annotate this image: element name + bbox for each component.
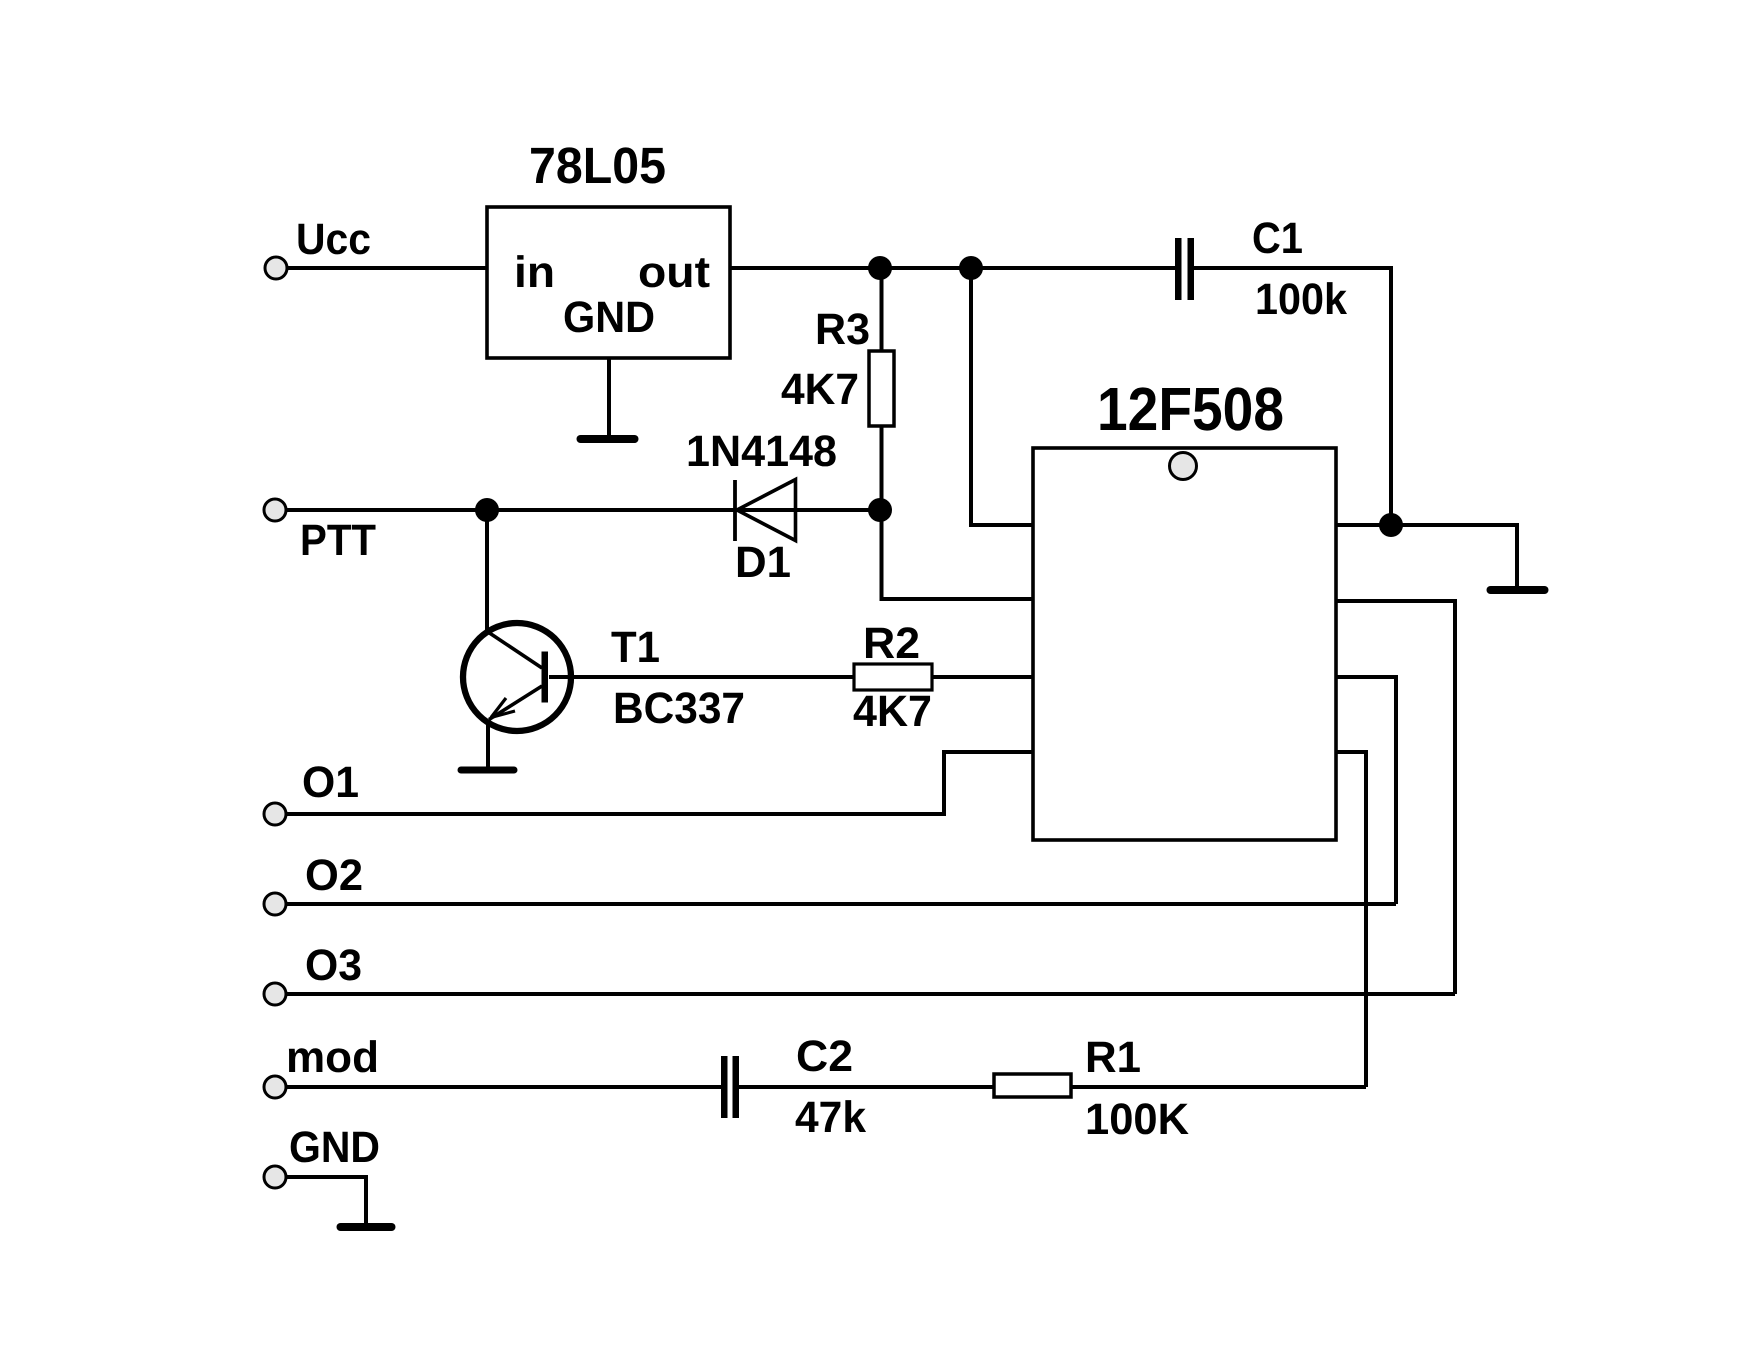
- svg-text:O2: O2: [305, 851, 363, 900]
- transistor T1 circle: [463, 623, 571, 731]
- svg-text:BC337: BC337: [613, 684, 745, 733]
- svg-text:C2: C2: [796, 1032, 853, 1081]
- terminal O1: [264, 803, 286, 825]
- wire PTT to diode junction: [287, 508, 880, 512]
- ground under regulator: [581, 435, 635, 443]
- wire R1 to IC riser: [1071, 1085, 1366, 1089]
- svg-text:1N4148: 1N4148: [686, 427, 837, 476]
- capacitor C2: [721, 1056, 728, 1118]
- wire IC right pin to O3 line: [1336, 601, 1455, 994]
- terminal O3: [264, 983, 286, 1005]
- wire mod to C2: [285, 1085, 721, 1089]
- svg-text:100K: 100K: [1085, 1095, 1189, 1144]
- diode D1 triangle: [737, 480, 796, 541]
- svg-text:R2: R2: [863, 619, 920, 668]
- diode D1 cathode bar: [733, 480, 737, 541]
- resistor R1: [994, 1074, 1071, 1097]
- ground at GND terminal: [341, 1223, 392, 1231]
- transistor T1 emitter arrow barb lower: [491, 711, 515, 718]
- terminal O2: [264, 893, 286, 915]
- wire IC right pin to O2 line: [1336, 677, 1396, 904]
- wire base to R2: [549, 675, 854, 679]
- svg-text:R3: R3: [815, 305, 870, 354]
- svg-text:Ucc: Ucc: [296, 215, 371, 264]
- wire R3 top: [880, 268, 884, 351]
- wire regulator out to C1: [730, 266, 1175, 270]
- transistor T1 emitter arrow barb upper: [491, 698, 506, 718]
- terminal GND: [264, 1166, 286, 1188]
- wire Ucc to regulator in: [288, 266, 487, 270]
- node junction C1 return: [1379, 513, 1403, 537]
- regulator U1 78L05 box: [487, 207, 730, 358]
- wire IC Vss right to ground: [1336, 525, 1517, 586]
- svg-text:4K7: 4K7: [781, 365, 859, 414]
- wire C2 to R1: [739, 1085, 994, 1089]
- wire IC right pin to R1 line: [1336, 752, 1366, 1087]
- wire PTT junction down to transistor collector: [485, 510, 489, 630]
- resistor R3: [869, 351, 894, 426]
- svg-text:12F508: 12F508: [1097, 375, 1284, 443]
- wire O3: [285, 992, 1455, 996]
- svg-text:O3: O3: [305, 941, 362, 990]
- wire GND to ground: [286, 1177, 366, 1224]
- svg-text:47k: 47k: [795, 1093, 867, 1142]
- transistor T1 emitter diagonal: [489, 686, 542, 720]
- transistor T1 base bar: [542, 652, 549, 703]
- wire emitter to ground: [486, 720, 490, 767]
- svg-text:GND: GND: [563, 293, 655, 342]
- wire Vdd branch down to IC: [971, 268, 1033, 525]
- capacitor C1: [1175, 238, 1182, 300]
- IC notch circle: [1170, 453, 1197, 480]
- resistor R2: [854, 664, 932, 690]
- wire O2: [285, 902, 1396, 906]
- svg-text:C1: C1: [1252, 214, 1303, 263]
- node junction PTT branch: [475, 498, 499, 522]
- transistor T1 collector diagonal: [488, 632, 542, 668]
- svg-text:in: in: [514, 248, 555, 297]
- svg-text:T1: T1: [611, 623, 660, 672]
- svg-text:100k: 100k: [1255, 275, 1347, 324]
- svg-text:out: out: [638, 248, 710, 297]
- wire C1 right to down: [1194, 268, 1391, 525]
- svg-text:GND: GND: [289, 1123, 380, 1172]
- terminal PTT: [264, 499, 286, 521]
- ground under transistor: [461, 767, 514, 774]
- node junction diode R3: [868, 498, 892, 522]
- node junction at R3 top: [868, 256, 892, 280]
- terminal Ucc: [265, 257, 287, 279]
- wire O1 to IC: [287, 752, 1033, 814]
- terminal mod: [264, 1076, 286, 1098]
- wire regulator GND stub: [607, 358, 611, 436]
- svg-text:O1: O1: [302, 758, 359, 807]
- svg-text:D1: D1: [735, 538, 791, 587]
- svg-text:mod: mod: [286, 1033, 379, 1082]
- wire R2 to IC: [932, 675, 1033, 679]
- svg-text:PTT: PTT: [300, 516, 376, 565]
- svg-text:R1: R1: [1085, 1033, 1141, 1082]
- wire R3 bottom to IC pin: [882, 426, 1034, 599]
- node junction at Vdd branch: [959, 256, 983, 280]
- svg-text:78L05: 78L05: [529, 137, 666, 194]
- ground right of IC: [1491, 586, 1545, 594]
- svg-text:4K7: 4K7: [853, 687, 932, 736]
- IC U2 12F508 box: [1033, 448, 1336, 840]
